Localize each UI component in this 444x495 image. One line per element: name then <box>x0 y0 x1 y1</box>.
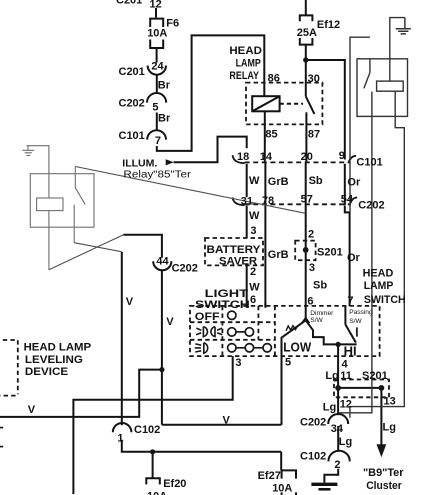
svg-text:31: 31 <box>241 196 253 208</box>
svg-text:3: 3 <box>235 357 241 369</box>
wire W 31 to battery saver <box>246 206 248 238</box>
svg-text:C202: C202 <box>119 98 145 110</box>
connector hooks <box>233 155 358 205</box>
svg-text:7: 7 <box>155 135 161 147</box>
svg-text:87: 87 <box>308 128 320 140</box>
head lamp leveling device dashed box <box>0 340 18 396</box>
svg-text:2: 2 <box>308 228 314 240</box>
svg-text:Lg: Lg <box>325 370 338 382</box>
right relay coil <box>377 81 404 91</box>
hook C202 right end <box>350 197 357 205</box>
svg-text:LOW: LOW <box>283 339 312 354</box>
dimmer pivot chevron <box>302 318 310 324</box>
svg-text:78: 78 <box>262 195 274 207</box>
wire from C201-12 top <box>155 8 157 18</box>
wire HI node to pin 4 / S201 <box>337 344 339 388</box>
svg-text:C102: C102 <box>300 450 326 462</box>
svg-text:S/W: S/W <box>310 317 323 324</box>
wire node to relay 30 <box>305 60 307 96</box>
svg-text:RELAY: RELAY <box>229 70 259 82</box>
splice dot S201 upper <box>303 247 309 253</box>
svg-text:HI: HI <box>344 343 357 358</box>
head bridges <box>236 347 263 349</box>
wire 44 down through junction to pin5 row <box>161 270 163 425</box>
svg-text:Passing: Passing <box>349 309 373 316</box>
light switch divider h2 <box>190 339 275 341</box>
contact park 2 <box>245 328 253 336</box>
fuse Ef12 <box>300 15 313 44</box>
svg-text:C102: C102 <box>134 424 160 436</box>
svg-text:86: 86 <box>268 72 280 84</box>
svg-text:Lg: Lg <box>323 401 336 413</box>
arrow to B9 cluster <box>377 444 387 457</box>
ground left relay <box>22 146 34 156</box>
wire Br C202 to C101 <box>156 113 158 131</box>
ILLUM arrow head <box>166 159 174 165</box>
svg-text:30: 30 <box>308 73 320 85</box>
svg-text:C202: C202 <box>172 263 198 275</box>
svg-text:S201: S201 <box>362 370 388 382</box>
svg-text:Sb: Sb <box>313 279 327 291</box>
wire Lg pin12 to C202-34 <box>337 388 339 415</box>
relay switch blade <box>306 96 315 114</box>
svg-text:Dimmer: Dimmer <box>310 310 334 317</box>
left relay box <box>30 174 94 228</box>
svg-text:Lg: Lg <box>339 436 352 448</box>
svg-text:Ef12: Ef12 <box>317 19 340 31</box>
wire pin5 row to C202-44 column <box>162 424 282 426</box>
wire 87 lead to C101-20 <box>305 112 307 162</box>
svg-text:Ef27: Ef27 <box>258 470 281 482</box>
light switch dashed box <box>190 306 380 356</box>
left relay coil <box>37 198 63 211</box>
wire GrB 14 to 78 <box>264 162 266 204</box>
svg-text:7: 7 <box>347 295 353 307</box>
S201 dashed box lower <box>334 380 389 398</box>
svg-text:OFF: OFF <box>195 311 220 323</box>
passing switch wire pin 7 <box>344 306 346 324</box>
light switch divider v2 <box>257 306 259 340</box>
S201 dashed box upper <box>295 241 315 261</box>
right relay box <box>357 59 408 117</box>
contact park 1 <box>228 328 236 336</box>
svg-text:SWITCH: SWITCH <box>195 299 250 311</box>
dimmer switch blade to LOW <box>282 320 306 337</box>
svg-text:2: 2 <box>250 266 256 278</box>
wire C102-1 to fuse row <box>122 440 281 452</box>
wire Ef12 to node <box>305 45 307 60</box>
junction dot HI node <box>336 342 341 347</box>
right relay switch lead top <box>369 59 371 73</box>
dimmer wiper squiggle <box>286 326 297 331</box>
svg-text:V: V <box>166 316 174 328</box>
svg-text:BATTERY: BATTERY <box>207 244 262 256</box>
svg-text:C101: C101 <box>356 157 382 169</box>
svg-text:GrB: GrB <box>268 249 289 261</box>
connector C202 pin 44 <box>153 261 171 270</box>
wire GrB 78 to light switch pin 2 <box>264 204 266 306</box>
fuse F6 <box>150 19 163 48</box>
park lamps icon <box>196 327 222 337</box>
wire LOW pin 5 down <box>281 337 283 425</box>
contact head 3 <box>263 344 271 352</box>
fuse Ef20 bracket <box>146 478 160 484</box>
svg-text:C202: C202 <box>358 199 384 211</box>
svg-text:Or: Or <box>347 176 361 188</box>
battery saver dashed box <box>205 238 263 265</box>
wire headlamp relay output down to C102-1 <box>121 252 123 426</box>
wire V branch left from junction <box>0 370 162 417</box>
svg-text:11: 11 <box>340 370 352 382</box>
svg-text:LAMP: LAMP <box>364 280 394 292</box>
wire Lg 34 to C102-2 <box>337 426 339 451</box>
hook C101 right end <box>348 156 356 164</box>
svg-text:4: 4 <box>342 359 349 371</box>
light switch contacts <box>195 311 298 353</box>
svg-text:SWITCH: SWITCH <box>364 294 406 306</box>
dimmer HI branch <box>306 320 357 344</box>
contact head 1 <box>228 344 236 352</box>
callout diagonal switch to wire <box>74 243 121 252</box>
contact head 2 <box>245 344 253 352</box>
svg-text:S201: S201 <box>317 246 343 258</box>
dashed boxes <box>0 83 389 398</box>
svg-text:C202: C202 <box>300 416 326 428</box>
svg-text:10A: 10A <box>147 491 167 495</box>
wire Br C201 to C202 <box>156 75 158 94</box>
svg-text:14: 14 <box>260 151 273 163</box>
head lamp icon <box>195 343 208 353</box>
svg-text:Or: Or <box>347 252 361 264</box>
fuse Ef27 brackets <box>282 470 296 495</box>
svg-text:85: 85 <box>265 128 277 140</box>
wire Or 9 to 54 <box>344 164 346 205</box>
wire ground to coil <box>27 146 49 198</box>
svg-text:C201: C201 <box>116 0 142 6</box>
connector row C202 dashed <box>245 203 350 205</box>
svg-text:6: 6 <box>307 296 313 308</box>
svg-text:DEVICE: DEVICE <box>25 366 68 378</box>
left relay switch blade <box>75 188 85 205</box>
svg-text:Br: Br <box>158 80 171 92</box>
svg-text:C201: C201 <box>119 66 145 78</box>
svg-text:S/W: S/W <box>349 318 362 325</box>
head lamp relay dashed box <box>246 83 322 125</box>
wire C102-2 to ground <box>324 469 338 483</box>
svg-text:ILLUM.: ILLUM. <box>122 157 157 169</box>
relay coil rect <box>252 96 279 111</box>
svg-text:GrB: GrB <box>268 176 289 188</box>
junction dot Ef12 node <box>303 57 308 62</box>
park bridge <box>236 331 245 333</box>
svg-text:10A: 10A <box>147 28 167 40</box>
connector C101 pin 7 <box>147 130 166 139</box>
S201 bridge <box>338 387 381 389</box>
svg-text:20: 20 <box>301 151 313 163</box>
svg-text:Sb: Sb <box>309 175 323 187</box>
svg-text:W: W <box>249 210 260 222</box>
ILLUM wire to C101-18 <box>174 137 247 163</box>
svg-text:25A: 25A <box>297 27 317 39</box>
wire W battery saver to light switch pin 6 <box>246 265 248 303</box>
tick pin 2 light switch <box>264 303 266 307</box>
svg-text:54: 54 <box>341 193 354 205</box>
callout diagonal upper to Sb node <box>75 167 305 214</box>
svg-text:24: 24 <box>151 61 164 73</box>
wire C202-44 from relay <box>123 235 161 258</box>
right relay switch top link to C101 <box>350 37 370 212</box>
svg-text:Br: Br <box>158 113 171 125</box>
svg-text:Ef20: Ef20 <box>163 478 186 490</box>
light switch divider v1 <box>221 306 223 356</box>
wire node to C101-9 feed <box>306 60 345 160</box>
connector C201 pin 24 <box>148 66 166 75</box>
wire 85 lead to C101-14 <box>264 111 266 162</box>
wire stub left edge 2 <box>0 446 3 448</box>
passing switch contact bar <box>356 327 358 336</box>
wire Sb 57 to S201 to dimmer pin 6 <box>305 204 307 320</box>
wire to fuse Ef20 <box>152 452 154 478</box>
svg-text:1: 1 <box>117 432 123 444</box>
svg-text:LAMP: LAMP <box>236 57 261 69</box>
junction dot V net <box>159 367 164 372</box>
svg-text:18: 18 <box>237 151 249 163</box>
svg-text:2: 2 <box>334 459 340 471</box>
splice dot S201 lower right <box>379 385 385 391</box>
wire to fuse Ef27 <box>280 452 282 470</box>
light switch divider h1 <box>190 321 275 323</box>
hook pin 18 <box>233 155 245 163</box>
relay coil diagonal <box>252 96 279 111</box>
svg-text:Cluster: Cluster <box>366 480 402 492</box>
svg-text:Lg: Lg <box>383 421 396 433</box>
svg-text:9: 9 <box>339 150 345 162</box>
connector C202 pin 34 <box>328 414 348 424</box>
svg-text:F6: F6 <box>166 17 179 29</box>
ground G102 bars <box>311 483 337 486</box>
wire F6 to C201-24 <box>156 48 158 63</box>
svg-text:V: V <box>28 404 36 416</box>
svg-text:W: W <box>249 175 260 187</box>
wire Or 54 jog to lamp switch pin 7 <box>345 205 350 306</box>
svg-text:V: V <box>223 414 231 426</box>
connector C102 pin 1 <box>113 423 132 432</box>
connector row C101 dashed <box>245 161 349 163</box>
svg-text:12: 12 <box>150 0 162 11</box>
svg-text:44: 44 <box>156 255 169 267</box>
tick pin 6 light switch <box>246 303 248 307</box>
hook pin 31 <box>233 197 245 205</box>
wire stub left edge 1 <box>0 427 3 429</box>
svg-text:57: 57 <box>301 193 313 205</box>
svg-text:Relay"85"Ter: Relay"85"Ter <box>123 170 191 181</box>
relay coil-switch dashed link <box>280 103 303 105</box>
wire Ef12 top <box>305 0 307 15</box>
svg-text:34: 34 <box>331 423 344 435</box>
wire light switch pin 3 out <box>73 356 232 494</box>
wire ground to right relay coil <box>390 18 405 82</box>
connector C202 pin 5 <box>147 93 166 103</box>
light switch divider v3 <box>274 306 276 356</box>
svg-text:HEAD: HEAD <box>363 267 394 279</box>
contact OFF <box>228 311 236 319</box>
wire W 18 to 31 <box>246 164 248 197</box>
wire pin13 to B9 cluster arrow <box>380 388 382 447</box>
svg-text:"B9"Ter: "B9"Ter <box>363 467 404 479</box>
connector C102 pin 2 <box>328 451 349 462</box>
svg-text:5: 5 <box>285 356 291 368</box>
right relay switch lead to Lg net <box>338 92 372 413</box>
svg-text:LEVELING: LEVELING <box>25 354 83 366</box>
right relay switch blade <box>364 73 370 89</box>
svg-text:HEAD: HEAD <box>229 45 262 57</box>
left relay coil lead down <box>48 211 50 270</box>
svg-text:13: 13 <box>384 396 396 408</box>
wire C101-7 to relay coil 86 <box>157 35 264 150</box>
passing switch blade <box>345 325 356 343</box>
svg-text:6: 6 <box>250 294 256 306</box>
junction dot fuse row <box>150 449 155 454</box>
right relay coil lead to Lg net <box>350 91 404 418</box>
svg-text:C101: C101 <box>119 130 145 142</box>
svg-text:3: 3 <box>309 262 315 274</box>
callout diagonal coil to wire <box>49 235 124 270</box>
svg-text:HEAD LAMP: HEAD LAMP <box>24 341 92 353</box>
left relay switch lead bottom <box>73 205 75 243</box>
svg-text:V: V <box>126 296 134 308</box>
left relay switch lead top <box>74 167 76 188</box>
wire Sb 20 to 57 <box>305 162 307 204</box>
svg-text:3: 3 <box>250 225 256 237</box>
ground right relay <box>396 18 411 34</box>
svg-text:W: W <box>249 281 260 293</box>
thin component drawings <box>22 146 94 270</box>
splice dot S201 lower left <box>335 385 341 391</box>
svg-text:10A: 10A <box>272 483 292 495</box>
svg-text:12: 12 <box>340 398 352 410</box>
